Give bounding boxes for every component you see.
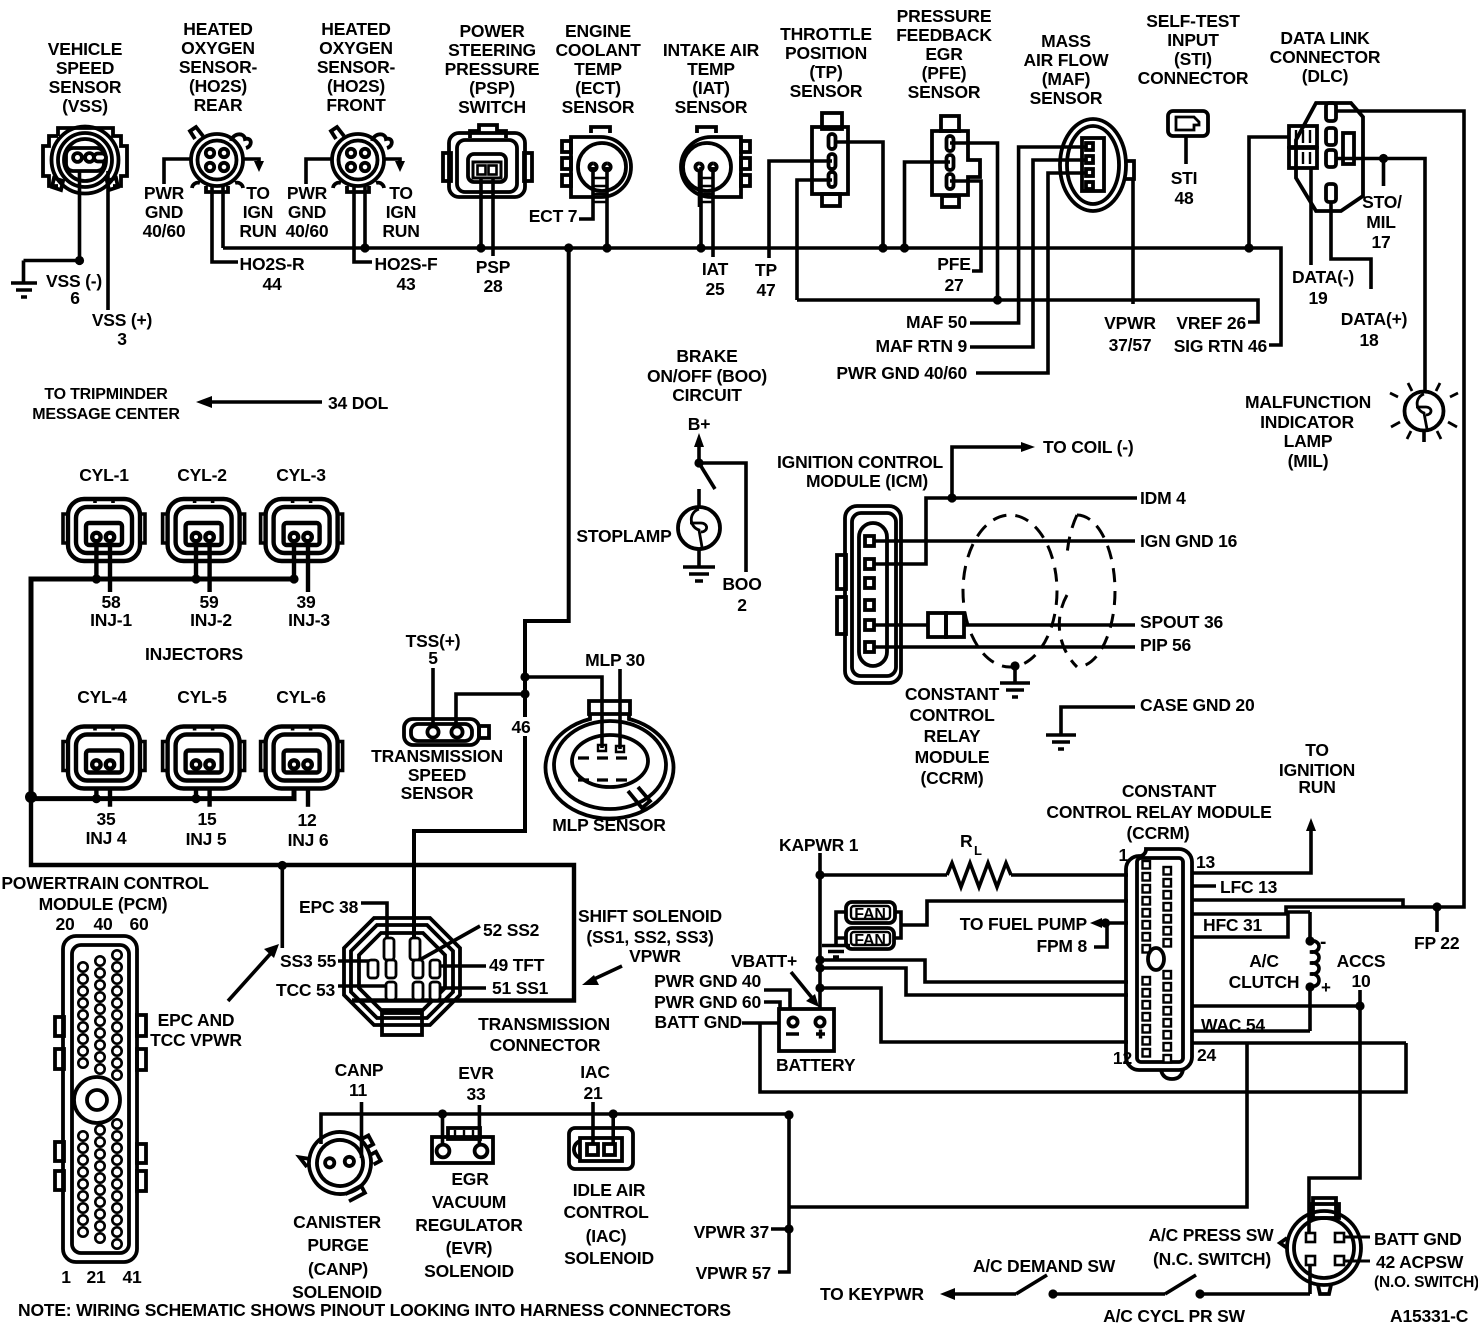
svg-text:SS3 55: SS3 55 xyxy=(280,951,337,971)
wire DATA(+) xyxy=(1331,202,1371,289)
svg-text:10: 10 xyxy=(1351,971,1371,991)
wire VBATT+ arrow xyxy=(791,972,813,999)
data link connector DLC xyxy=(1289,103,1363,211)
wire kapwr to R_L xyxy=(820,873,947,877)
svg-text:PWR GND 40: PWR GND 40 xyxy=(654,971,761,991)
wire EVR left pin xyxy=(441,1114,445,1146)
svg-text:CONTROL RELAY MODULE: CONTROL RELAY MODULE xyxy=(1046,802,1271,822)
switch blade A/C cycl pr xyxy=(1165,1275,1196,1294)
svg-text:RUN: RUN xyxy=(239,221,276,241)
svg-text:CONSTANT: CONSTANT xyxy=(1122,781,1217,801)
svg-text:15: 15 xyxy=(197,809,217,829)
wire HO2S-R to ign run xyxy=(243,159,259,164)
svg-text:SHIFT SOLENOID: SHIFT SOLENOID xyxy=(578,906,722,926)
wire ACCS 10 stub xyxy=(1358,990,1362,1006)
svg-text:CYL-6: CYL-6 xyxy=(276,687,326,707)
svg-text:CONNECTOR: CONNECTOR xyxy=(490,1035,601,1055)
svg-text:FP 22: FP 22 xyxy=(1414,933,1460,953)
engine coolant temp ECT sensor connector xyxy=(562,127,631,207)
wire CYL-4 pins xyxy=(96,788,110,807)
svg-text:TO: TO xyxy=(1305,740,1329,760)
svg-text:GND: GND xyxy=(288,202,326,222)
svg-text:ACCS: ACCS xyxy=(1337,951,1386,971)
wire HO2S-F heater to bus xyxy=(363,185,367,248)
vehicle speed sensor VSS connector xyxy=(43,127,127,194)
svg-text:POSITION: POSITION xyxy=(785,43,867,63)
svg-text:STO/: STO/ xyxy=(1362,192,1402,212)
svg-text:12: 12 xyxy=(1113,1048,1133,1068)
svg-text:-: - xyxy=(1320,932,1326,953)
svg-text:AIR FLOW: AIR FLOW xyxy=(1024,50,1110,70)
svg-text:CLUTCH: CLUTCH xyxy=(1229,972,1300,992)
wire 51 SS1 xyxy=(437,986,486,990)
svg-text:TEMP: TEMP xyxy=(574,59,622,79)
stoplamp switch blade xyxy=(699,463,715,489)
wire 52 SS2 xyxy=(416,926,480,962)
wire ECT 7 xyxy=(579,167,593,219)
svg-text:34 DOL: 34 DOL xyxy=(328,393,389,413)
svg-text:PURGE: PURGE xyxy=(307,1235,368,1255)
svg-text:(CCRM): (CCRM) xyxy=(921,768,984,788)
ground (case gnd) xyxy=(1046,735,1076,749)
svg-text:SENSOR: SENSOR xyxy=(908,82,981,102)
svg-text:40/60: 40/60 xyxy=(143,221,186,241)
wire pwr gnd 60 to CCRM xyxy=(820,968,1128,995)
wire TP top pin to bus xyxy=(836,142,883,248)
svg-text:TEMP: TEMP xyxy=(687,59,735,79)
wire IAC 21 xyxy=(591,1102,595,1144)
fan motor 2 xyxy=(846,928,894,949)
A/C clutch coil xyxy=(1310,941,1319,987)
svg-text:TO FUEL PUMP: TO FUEL PUMP xyxy=(960,914,1088,934)
svg-text:HEATED: HEATED xyxy=(321,19,390,39)
svg-text:IGN GND 16: IGN GND 16 xyxy=(1140,531,1238,551)
svg-text:44: 44 xyxy=(262,274,282,294)
svg-text:ON/OFF (BOO): ON/OFF (BOO) xyxy=(647,366,767,386)
svg-text:OXYGEN: OXYGEN xyxy=(181,38,255,58)
svg-text:KAPWR 1: KAPWR 1 xyxy=(779,835,859,855)
svg-text:CONNECTOR: CONNECTOR xyxy=(1138,68,1249,88)
svg-text:51 SS1: 51 SS1 xyxy=(492,978,549,998)
wire CYL-3 pins xyxy=(294,545,308,592)
idle air control IAC solenoid connector xyxy=(569,1128,633,1169)
svg-text:FRONT: FRONT xyxy=(326,95,386,115)
B+ arrow xyxy=(697,446,701,463)
svg-text:A/C CYCL PR SW: A/C CYCL PR SW xyxy=(1103,1306,1245,1326)
svg-text:40/60: 40/60 xyxy=(286,221,329,241)
svg-text:R: R xyxy=(960,831,973,851)
svg-text:SWITCH: SWITCH xyxy=(458,97,526,117)
svg-text:(HO2S): (HO2S) xyxy=(189,76,247,96)
ground (stoplamp) xyxy=(683,567,715,581)
wire CCRM pin 24 out xyxy=(1192,1041,1406,1045)
svg-text:INJ-3: INJ-3 xyxy=(288,610,330,630)
svg-text:BATT GND: BATT GND xyxy=(654,1012,742,1032)
svg-text:MIL: MIL xyxy=(1366,212,1396,232)
svg-text:+: + xyxy=(1321,978,1331,997)
wire ICM spout 36 xyxy=(874,623,1135,627)
wire FPM 8 xyxy=(1094,923,1107,947)
svg-text:EGR: EGR xyxy=(451,1169,489,1189)
svg-text:SENSOR: SENSOR xyxy=(562,97,635,117)
svg-text:(DLC): (DLC) xyxy=(1302,66,1349,86)
svg-text:SPEED: SPEED xyxy=(408,765,466,785)
wire boo circuit vertical / wire 46 xyxy=(414,248,569,945)
powertrain control module PCM connector xyxy=(55,936,146,1262)
svg-text:CASE GND 20: CASE GND 20 xyxy=(1140,695,1255,715)
svg-text:VPWR: VPWR xyxy=(1104,313,1156,333)
svg-text:39: 39 xyxy=(296,592,316,612)
ground (fans) xyxy=(822,946,850,958)
throttle position TP sensor connector xyxy=(812,113,848,206)
pressure feedback EGR PFE sensor connector xyxy=(932,116,980,207)
wire ECT pin to bus xyxy=(605,167,609,248)
svg-text:SOLENOID: SOLENOID xyxy=(564,1248,654,1268)
wire CYL-1 pins xyxy=(96,545,110,592)
wire HO2S-R 44 xyxy=(212,185,238,262)
svg-text:FAN: FAN xyxy=(854,932,885,949)
svg-text:VPWR: VPWR xyxy=(629,946,681,966)
svg-text:CONNECTOR: CONNECTOR xyxy=(1270,47,1381,67)
svg-text:IGN: IGN xyxy=(243,202,274,222)
svg-text:FAN: FAN xyxy=(854,906,885,923)
svg-text:TRANSMISSION: TRANSMISSION xyxy=(371,746,503,766)
wire epc-tcc vpwr drop xyxy=(280,866,284,949)
svg-text:SENSOR: SENSOR xyxy=(675,97,748,117)
stoplamp bulb xyxy=(678,507,720,549)
injector connector CYL-5 xyxy=(163,727,245,789)
wire IAT pin to bus xyxy=(699,167,703,248)
svg-text:43: 43 xyxy=(396,274,416,294)
wire CYL-5 pins xyxy=(196,788,210,807)
svg-text:A15331-C: A15331-C xyxy=(1390,1306,1469,1326)
fan motor 1 xyxy=(846,902,895,923)
svg-text:TO: TO xyxy=(389,183,413,203)
svg-text:28: 28 xyxy=(483,276,503,296)
svg-text:48: 48 xyxy=(1174,188,1194,208)
svg-text:52 SS2: 52 SS2 xyxy=(483,920,540,940)
mass air flow MAF sensor connector xyxy=(1060,119,1134,211)
svg-text:MASS: MASS xyxy=(1041,31,1091,51)
wire injector bus row2 xyxy=(31,788,294,799)
wire 34 DOL to tripminder arrow xyxy=(206,400,322,404)
keypwr switch line xyxy=(952,1292,1310,1296)
svg-text:20: 20 xyxy=(55,914,75,934)
svg-text:HEATED: HEATED xyxy=(183,19,252,39)
wire pin24 down-left to vpwr xyxy=(789,1043,1247,1207)
svg-text:CANP: CANP xyxy=(335,1060,384,1080)
svg-text:TO TRIPMINDER: TO TRIPMINDER xyxy=(44,386,168,403)
wire case gnd 20 xyxy=(1061,707,1135,734)
svg-text:RUN: RUN xyxy=(382,221,419,241)
svg-text:CYL-2: CYL-2 xyxy=(177,465,227,485)
power steering pressure PSP switch connector xyxy=(443,125,532,197)
svg-text:21: 21 xyxy=(583,1083,603,1103)
svg-text:WAC 54: WAC 54 xyxy=(1201,1015,1265,1035)
wire stoplamp top xyxy=(697,489,701,508)
svg-text:(N.C. SWITCH): (N.C. SWITCH) xyxy=(1153,1249,1271,1269)
svg-text:(MIL): (MIL) xyxy=(1288,451,1329,471)
wire BOO 2 xyxy=(699,463,746,572)
svg-text:INDICATOR: INDICATOR xyxy=(1260,412,1354,432)
wire injector bus row1 xyxy=(31,579,296,797)
svg-text:CIRCUIT: CIRCUIT xyxy=(672,385,742,405)
svg-text:PWR GND 60: PWR GND 60 xyxy=(654,992,761,1012)
constant control relay module CCRM connector xyxy=(1126,849,1192,1079)
svg-text:SOLENOID: SOLENOID xyxy=(424,1261,514,1281)
wire ICM pip 56 xyxy=(874,645,1135,649)
svg-text:(HO2S): (HO2S) xyxy=(327,76,385,96)
svg-text:HO2S-F: HO2S-F xyxy=(375,254,438,274)
svg-text:TP: TP xyxy=(755,260,777,280)
svg-text:(PSP): (PSP) xyxy=(469,78,515,98)
wire HO2S-R pwr gnd xyxy=(164,159,191,184)
svg-text:IDM 4: IDM 4 xyxy=(1140,488,1186,508)
svg-text:INTAKE AIR: INTAKE AIR xyxy=(663,40,760,60)
svg-text:SENSOR: SENSOR xyxy=(1030,88,1103,108)
wire R_L to CCRM pin1 xyxy=(1011,873,1128,877)
wire sig-rtn bus (top horizontal bus) xyxy=(223,248,1281,345)
svg-text:POWER: POWER xyxy=(459,21,525,41)
svg-text:DATA(-): DATA(-) xyxy=(1292,267,1354,287)
svg-text:SENSOR-: SENSOR- xyxy=(317,57,396,77)
wire harness shield to ground xyxy=(1013,666,1017,682)
svg-text:1: 1 xyxy=(1118,845,1128,865)
svg-text:INJ 4: INJ 4 xyxy=(86,828,127,848)
wire HO2S-R heater to bus xyxy=(221,185,225,248)
svg-text:SELF-TEST: SELF-TEST xyxy=(1146,11,1240,31)
wire fan output to CCRM xyxy=(894,901,1128,938)
ground (harness shield) xyxy=(1000,683,1030,697)
injector connector CYL-4 xyxy=(63,727,145,789)
svg-text:B+: B+ xyxy=(688,414,710,434)
svg-text:DATA(+): DATA(+) xyxy=(1341,309,1407,329)
svg-text:MODULE (PCM): MODULE (PCM) xyxy=(39,894,168,914)
svg-text:LAMP: LAMP xyxy=(1284,431,1333,451)
svg-text:MAF 50: MAF 50 xyxy=(906,312,968,332)
svg-text:VBATT+: VBATT+ xyxy=(731,951,797,971)
wire TSS(+) 5 xyxy=(431,668,435,726)
svg-text:13: 13 xyxy=(1196,852,1216,872)
svg-text:TCC VPWR: TCC VPWR xyxy=(150,1030,242,1050)
svg-text:42 ACPSW: 42 ACPSW xyxy=(1376,1252,1464,1272)
svg-text:EVR: EVR xyxy=(458,1063,494,1083)
svg-text:47: 47 xyxy=(756,280,775,300)
svg-text:GND: GND xyxy=(145,202,183,222)
svg-text:MLP 30: MLP 30 xyxy=(585,650,645,670)
svg-text:MESSAGE CENTER: MESSAGE CENTER xyxy=(32,406,180,423)
svg-text:MODULE (ICM): MODULE (ICM) xyxy=(806,471,928,491)
svg-text:(N.O. SWITCH): (N.O. SWITCH) xyxy=(1374,1274,1478,1291)
svg-text:SIG RTN 46: SIG RTN 46 xyxy=(1174,336,1268,356)
EGR vacuum regulator EVR solenoid connector xyxy=(432,1128,493,1163)
svg-text:VPWR 37: VPWR 37 xyxy=(694,1222,769,1242)
wire VPWR 37 elbow xyxy=(771,1227,789,1231)
svg-text:A/C PRESS SW: A/C PRESS SW xyxy=(1149,1225,1275,1245)
wire VSS(-) to ground xyxy=(24,171,80,282)
switch blade A/C demand xyxy=(1016,1275,1047,1294)
injector connector CYL-3 xyxy=(261,499,343,561)
svg-text:EPC 38: EPC 38 xyxy=(299,897,359,917)
svg-text:46: 46 xyxy=(511,717,531,737)
svg-text:OXYGEN: OXYGEN xyxy=(319,38,393,58)
wire to coil (-) xyxy=(952,447,1025,498)
MLP sensor connector xyxy=(546,701,674,819)
wire DATA(-) xyxy=(1309,168,1313,265)
svg-text:27: 27 xyxy=(944,275,963,295)
svg-text:INJ-1: INJ-1 xyxy=(90,610,132,630)
wire STI stem xyxy=(1184,135,1188,164)
svg-text:(MAF): (MAF) xyxy=(1042,69,1091,89)
svg-text:INJ-2: INJ-2 xyxy=(190,610,232,630)
wire batt gnd label to battery xyxy=(742,1021,786,1025)
svg-text:PIP 56: PIP 56 xyxy=(1140,635,1191,655)
svg-text:PWR: PWR xyxy=(287,183,328,203)
wire to fuel pump xyxy=(1096,921,1128,925)
svg-text:58: 58 xyxy=(101,592,121,612)
svg-text:SOLENOID: SOLENOID xyxy=(292,1282,382,1302)
svg-text:SPOUT 36: SPOUT 36 xyxy=(1140,612,1223,632)
wire CYL-6 right pin xyxy=(306,788,310,807)
svg-text:25: 25 xyxy=(705,279,725,299)
svg-text:BATT GND: BATT GND xyxy=(1374,1229,1462,1249)
wire HO2S-F pwr gnd xyxy=(306,159,332,184)
wire MAF pwr gnd xyxy=(976,173,1086,373)
svg-text:(ECT): (ECT) xyxy=(575,78,621,98)
wire FP 22 stub xyxy=(1435,907,1439,932)
wire WAC 54 xyxy=(1192,1029,1310,1033)
wire pwr gnd 40 to CCRM xyxy=(820,960,1128,982)
svg-text:RUN: RUN xyxy=(1298,777,1335,797)
svg-text:NOTE: WIRING SCHEMATIC SHOWS P: NOTE: WIRING SCHEMATIC SHOWS PINOUT LOOK… xyxy=(18,1300,731,1320)
svg-text:BATTERY: BATTERY xyxy=(776,1055,856,1075)
svg-text:CYL-5: CYL-5 xyxy=(177,687,227,707)
wire A/C clutch bottom xyxy=(1308,987,1312,1031)
wire HO2S-F to ign run xyxy=(384,159,400,164)
svg-text:HFC 31: HFC 31 xyxy=(1203,915,1263,935)
svg-text:IAC: IAC xyxy=(580,1062,610,1082)
svg-text:PRESSURE: PRESSURE xyxy=(445,59,540,79)
svg-text:CYL-1: CYL-1 xyxy=(79,465,129,485)
wire CANP 11 xyxy=(360,1102,364,1158)
svg-text:11: 11 xyxy=(349,1080,368,1100)
svg-text:A/C DEMAND SW: A/C DEMAND SW xyxy=(973,1256,1116,1276)
wire ACCS to pressure switch xyxy=(1309,1006,1360,1232)
svg-text:INJ 5: INJ 5 xyxy=(186,829,227,849)
wire PFE mid pin to bus xyxy=(905,162,951,248)
resistor R_L xyxy=(947,863,1011,887)
wire TSS feed xyxy=(456,694,525,726)
svg-text:(STI): (STI) xyxy=(1174,49,1212,69)
malfunction indicator lamp MIL xyxy=(1390,383,1458,439)
canister purge CANP solenoid connector xyxy=(296,1118,391,1212)
wire batt gnd down and right xyxy=(760,1023,1406,1092)
svg-text:MODULE: MODULE xyxy=(915,747,990,767)
svg-text:MALFUNCTION: MALFUNCTION xyxy=(1245,392,1371,412)
svg-text:SENSOR-: SENSOR- xyxy=(179,57,258,77)
svg-text:IGNITION CONTROL: IGNITION CONTROL xyxy=(777,452,943,472)
transmission speed sensor connector xyxy=(404,719,489,745)
arrow epc/tcc vpwr xyxy=(228,952,272,1001)
svg-text:40: 40 xyxy=(93,914,113,934)
svg-text:STEERING: STEERING xyxy=(448,40,536,60)
wire IAT 25 xyxy=(711,167,715,257)
svg-text:3: 3 xyxy=(117,329,127,349)
wire solenoid bus xyxy=(321,1114,789,1144)
wire CCRM upper right pair xyxy=(1192,900,1403,907)
svg-text:2: 2 xyxy=(737,595,747,615)
svg-text:CONTROL: CONTROL xyxy=(563,1202,649,1222)
wire TP 47 xyxy=(769,161,832,258)
wire ACCS feed xyxy=(1192,1004,1360,1008)
svg-text:MAF RTN 9: MAF RTN 9 xyxy=(875,336,967,356)
svg-text:INJ 6: INJ 6 xyxy=(288,830,329,850)
svg-text:33: 33 xyxy=(466,1084,486,1104)
wire stoplamp to ground xyxy=(697,549,701,566)
svg-text:IAT: IAT xyxy=(702,259,729,279)
arrow shift solenoid vpwr xyxy=(592,966,622,980)
wire EVR 33 xyxy=(478,1105,482,1146)
svg-text:(CANP): (CANP) xyxy=(308,1259,368,1279)
svg-text:41: 41 xyxy=(122,1267,142,1287)
wire MLP sensor feed xyxy=(525,677,602,748)
svg-text:PWR GND 40/60: PWR GND 40/60 xyxy=(836,363,967,383)
wire PSP 28 xyxy=(491,178,495,256)
svg-text:37/57: 37/57 xyxy=(1109,335,1152,355)
svg-text:THROTTLE: THROTTLE xyxy=(780,24,872,44)
wire MLP 30 xyxy=(618,669,622,749)
svg-text:CONSTANT: CONSTANT xyxy=(905,684,1000,704)
ignition control module ICM connector xyxy=(837,506,901,683)
svg-text:6: 6 xyxy=(70,288,80,308)
svg-text:VEHICLE: VEHICLE xyxy=(48,39,122,59)
wire vpwr vertical xyxy=(778,1115,789,1272)
transmission connector octagon xyxy=(344,918,460,1035)
wire DLC pin1 to right edge xyxy=(1286,111,1464,912)
svg-text:IDLE AIR: IDLE AIR xyxy=(573,1180,646,1200)
wire injector bus to PCM area xyxy=(31,797,574,1001)
wire DLC sto/mil to MIL lamp xyxy=(1336,159,1425,392)
wire MAF 50 xyxy=(970,147,1086,323)
wire CYL-2 pins xyxy=(196,545,210,592)
ground (VSS) xyxy=(11,283,37,297)
svg-text:TO COIL (-): TO COIL (-) xyxy=(1043,437,1133,457)
wire PSP pin to bus xyxy=(479,178,483,248)
svg-text:EGR: EGR xyxy=(925,44,963,64)
wire HO2S-F 43 xyxy=(354,185,372,262)
injector connector CYL-1 xyxy=(63,499,145,561)
wire MAF vpwr xyxy=(1131,180,1135,304)
svg-text:EPC AND: EPC AND xyxy=(158,1010,235,1030)
svg-text:VPWR 57: VPWR 57 xyxy=(696,1263,771,1283)
svg-text:1: 1 xyxy=(61,1267,71,1287)
svg-text:A/C: A/C xyxy=(1249,951,1279,971)
svg-text:17: 17 xyxy=(1371,232,1390,252)
svg-text:(SS1, SS2, SS3): (SS1, SS2, SS3) xyxy=(586,927,713,947)
svg-text:PWR: PWR xyxy=(144,183,185,203)
svg-text:TCC 53: TCC 53 xyxy=(276,980,336,1000)
wire fan bracket left xyxy=(836,912,846,944)
wire HFC 31 loop xyxy=(1192,914,1288,937)
svg-text:VREF 26: VREF 26 xyxy=(1176,313,1246,333)
wire PFE top pin to vref bus xyxy=(950,143,998,300)
intake air temp IAT sensor connector xyxy=(681,127,750,207)
wire TP bottom pin to vref bus xyxy=(797,180,832,300)
wire TCC 53 xyxy=(338,984,392,988)
wire KAPWR 1 to battery + xyxy=(818,853,822,1016)
svg-text:VSS (+): VSS (+) xyxy=(92,310,152,330)
svg-text:SENSOR: SENSOR xyxy=(49,77,122,97)
